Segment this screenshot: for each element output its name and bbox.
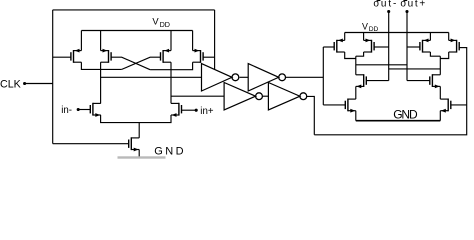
svg-text:DD: DD [369, 26, 379, 33]
node CLK terminal dot [23, 82, 26, 85]
wire M13 gate lead [407, 80, 430, 82]
wire CLK input [25, 83, 53, 85]
wire M9 gate lead [374, 46, 389, 48]
svg-text:out+: out+ [400, 0, 427, 10]
wire X2 to inverter I3 [171, 95, 224, 97]
svg-text:out-: out- [373, 0, 398, 10]
inverter I1 [202, 64, 239, 91]
ground GND label right [393, 108, 418, 122]
wire M9 drain to node Y1 [356, 52, 364, 56]
wire node X2 vertical [170, 62, 172, 103]
wire M14 source to ground [355, 111, 357, 121]
power VDD rail right [345, 32, 449, 34]
wire CLK to tail gate [53, 143, 129, 145]
svg-text:V: V [362, 21, 368, 31]
wire M11 source riser [448, 33, 450, 41]
wire M12 source down [355, 86, 357, 99]
wire out+ vertical [406, 12, 408, 81]
wire X1 to inverter I1 [101, 76, 202, 78]
power VDD label [152, 15, 170, 29]
wire I3 out to I4 [263, 95, 269, 97]
transistor M2 (NMOS input in+) [171, 103, 182, 117]
transistor M13 (NMOS, gate out+) [430, 74, 441, 88]
node in- label [61, 105, 72, 116]
node in+ terminal dot [195, 109, 198, 112]
wire node X1 vertical [100, 62, 102, 103]
wire common source rail [101, 115, 171, 123]
wire tail drain riser [138, 123, 140, 138]
transistor M10 (PMOS, gate out+) [420, 39, 431, 53]
transistor M5 (cross-coupled PMOS) [101, 49, 112, 63]
wire M12 gate lead [366, 80, 388, 82]
wire clk left vertical [52, 10, 54, 144]
transistor M4 (PMOS, gate to CLK) [193, 49, 204, 63]
wire M3 gate lead [53, 56, 71, 58]
wire M10 drain to node Y2 [430, 52, 440, 56]
inverter I4 [268, 83, 306, 110]
node out+ label [400, 0, 427, 10]
wire M10 source riser [429, 33, 431, 41]
wire M14 gate lead [323, 104, 345, 106]
wire M4 gate lead [203, 56, 215, 58]
wire node Y2 vertical [439, 56, 441, 75]
transistor M9 (PMOS, gate out-) [364, 39, 375, 53]
wire out- vertical [388, 12, 390, 81]
wire S input riser [322, 47, 324, 105]
inverter I2 [248, 64, 285, 91]
svg-text:DD: DD [160, 20, 170, 29]
wire M4 source riser [192, 31, 194, 51]
transistor M3 (PMOS, gate to CLK) [71, 49, 82, 63]
wire M3 source riser [80, 31, 82, 51]
wire M8 drain to node Y1 [345, 52, 356, 59]
wire M9 source riser [363, 33, 365, 41]
node out+ dot [405, 10, 408, 13]
svg-text:in-: in- [61, 105, 72, 116]
wire M8 gate lead [323, 46, 334, 48]
ground rail right [356, 120, 441, 122]
svg-text:in+: in+ [200, 106, 214, 117]
transistor M7 (NMOS tail, gate to CLK) [129, 137, 140, 151]
svg-text:GND: GND [393, 108, 418, 122]
svg-text:V: V [152, 15, 159, 26]
transistor M6 (cross-coupled PMOS) [161, 49, 172, 63]
svg-text:GND: GND [154, 146, 186, 158]
wire R input bottom path [314, 47, 466, 135]
node out- label [373, 0, 398, 10]
node in- terminal dot [77, 108, 80, 111]
transistor M11 (PMOS, gate R) [449, 39, 460, 53]
wire M5 source riser [100, 31, 102, 51]
wire tail source to ground [138, 150, 140, 159]
wire M8 source riser [344, 33, 346, 41]
node out- dot [387, 10, 390, 13]
power VDD label right [362, 21, 379, 33]
wire clk right vertical [214, 10, 216, 70]
wire M2 gate lead [182, 109, 196, 111]
wire M6 gate to node X1 [122, 57, 161, 69]
ground rail (gray) [118, 156, 166, 158]
transistor M12 (NMOS, gate out-) [356, 74, 367, 88]
ground GND label [154, 146, 186, 158]
transistor M15 (NMOS, gate R) [440, 99, 451, 113]
transistor M1 (NMOS input in-) [90, 103, 101, 117]
transistor M8 (PMOS, gate S) [334, 39, 345, 53]
transistor M14 (NMOS, gate S) [345, 99, 356, 113]
wire M10 gate lead [407, 46, 420, 48]
wire M15 gate lead [451, 104, 467, 106]
wire node Y1 to out+ line [356, 64, 407, 66]
svg-text:CLK: CLK [0, 79, 22, 91]
wire node X1 (M3 drain to X1 rail) [81, 62, 121, 69]
wire M11 drain to node Y2 [440, 52, 448, 59]
wire M15 source to ground [439, 111, 441, 121]
wire M1 gate lead [78, 109, 90, 111]
wire M5 gate to node X2 [111, 57, 150, 69]
wire I2 out to latch [286, 76, 324, 78]
node CLK label [0, 79, 22, 91]
wire node Y2 to out- line [389, 68, 441, 70]
wire M6 source riser [170, 31, 172, 51]
node in+ label [200, 106, 214, 117]
wire I4 out [307, 96, 315, 134]
wire node X2 (M4 drain to X2 rail) [150, 62, 193, 69]
wire M11 gate lead [459, 47, 467, 49]
wire I1 out to I2 [240, 76, 249, 78]
wire clk top rail [53, 9, 215, 11]
wire node Y1 vertical [355, 56, 357, 75]
power VDD rail [81, 30, 192, 32]
inverter I3 [224, 83, 262, 110]
wire M13 source down [439, 86, 441, 99]
